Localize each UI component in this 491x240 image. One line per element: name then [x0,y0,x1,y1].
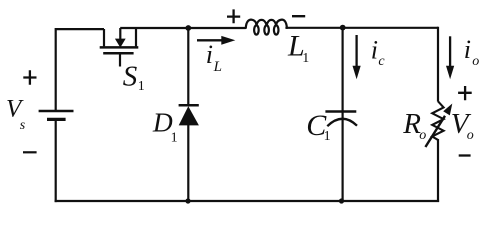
current arrow ic [353,35,361,79]
wire right rail (bottom) [437,139,439,202]
svg-text:1: 1 [324,129,331,144]
svg-text:1: 1 [138,79,145,94]
svg-text:1: 1 [171,131,178,146]
wire capacitor branch [342,28,344,201]
svg-text:S: S [123,61,138,93]
node junction top-right (capacitor top) [340,25,346,31]
plus sign (Vs) [23,70,36,85]
svg-text:i: i [206,40,213,69]
svg-text:c: c [378,54,385,69]
wire left rail (top half) [55,28,57,111]
svg-text:i: i [371,36,378,65]
minus sign (Vs) [23,151,37,153]
wire bottom rail [55,200,440,202]
minus sign (L1 right) [292,15,305,17]
battery source Vs [39,111,74,119]
svg-text:1: 1 [302,51,309,66]
svg-text:s: s [20,118,26,133]
svg-text:o: o [419,128,426,143]
plus sign (L1 left) [227,9,240,23]
wire diode branch upper [187,28,189,105]
node junction bottom (capacitor bottom) [339,198,344,203]
wire left rail (bottom half) [55,119,57,202]
transistor S1 [100,28,139,67]
diode D1 [179,105,199,125]
plus sign (Vo) [458,86,472,100]
node junction top-left (diode top) [185,25,191,31]
wire diode branch lower [187,125,189,201]
svg-text:o: o [472,54,479,69]
wire right rail (top) [437,27,439,102]
node junction bottom (diode bottom) [185,198,190,203]
current arrow iL [197,36,235,45]
svg-text:o: o [467,128,474,143]
svg-text:i: i [464,35,471,64]
inductor L1 coil [246,20,287,35]
resistor Ro (variable) [425,101,452,147]
svg-text:L: L [213,59,222,75]
minus sign (Vo) [459,154,471,156]
capacitor C1 [325,112,357,127]
wire top-left segment [56,28,104,30]
wire top rail (switch to right corner) [120,27,438,29]
current arrow io [446,36,454,79]
